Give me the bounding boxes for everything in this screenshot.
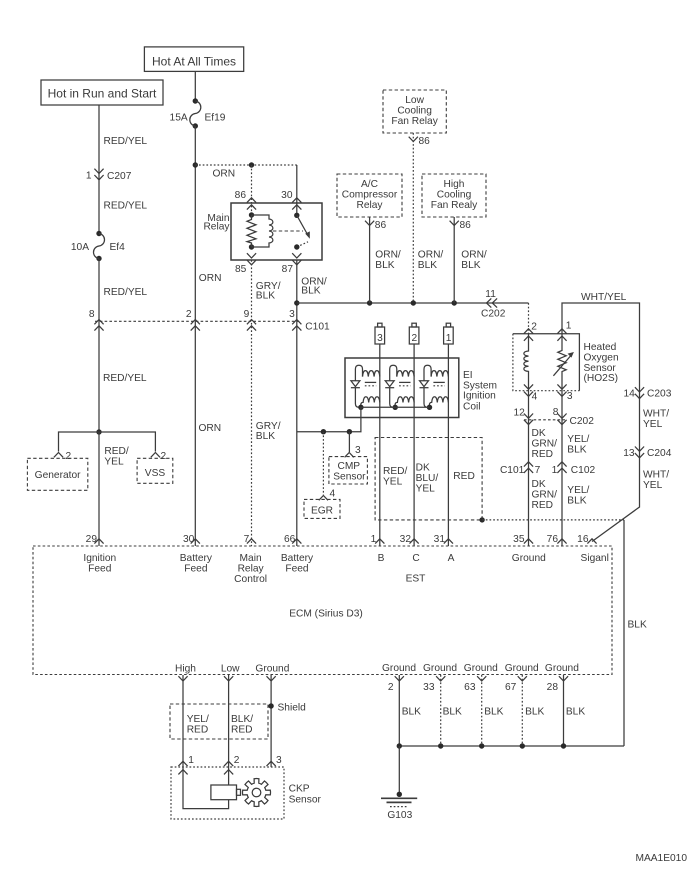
svg-text:2: 2 — [411, 333, 417, 344]
relay coil winding — [252, 215, 273, 247]
wire branch to Generator and VSS — [59, 432, 156, 452]
wire dotted ORN/BLK from low fan relay to bus — [412, 133, 414, 303]
ignition coil unit 3 secondary winding — [424, 388, 430, 408]
svg-text:DK: DK — [416, 463, 430, 474]
ignition coil unit 3 common node — [427, 405, 432, 410]
svg-text:BLK: BLK — [567, 445, 586, 456]
svg-text:YEL: YEL — [643, 480, 663, 491]
wire Low to CKP pin 2 — [228, 675, 230, 785]
wire ground pin 2 BLK — [398, 675, 400, 746]
wire shield Ground to CKP case — [270, 675, 272, 767]
svg-text:BLK/: BLK/ — [231, 714, 253, 725]
wire label RED/ YEL — [104, 446, 129, 468]
ignition coil unit 2 diode — [385, 381, 394, 388]
EGR — [304, 499, 340, 518]
svg-text:Ground: Ground — [464, 663, 498, 674]
svg-text:RED: RED — [532, 449, 554, 460]
svg-text:B: B — [378, 553, 385, 564]
wire ground bus — [399, 745, 624, 747]
ignition coil unit 2 secondary winding — [390, 388, 396, 408]
svg-text:YEL: YEL — [104, 456, 124, 467]
svg-text:BLU/: BLU/ — [416, 473, 439, 484]
svg-text:Ground: Ground — [423, 663, 457, 674]
wire ORN/BLK from high fan relay to bus — [453, 217, 455, 303]
Main Relay box — [231, 203, 322, 260]
svg-text:28: 28 — [547, 682, 559, 693]
wire ground pin 33 BLK dotted — [440, 675, 442, 746]
svg-text:2: 2 — [531, 321, 537, 332]
connector C202 pin 11 — [481, 289, 506, 320]
node: branch to relay pin 86 — [249, 162, 254, 167]
svg-text:11: 11 — [485, 289, 496, 300]
Generator — [27, 458, 87, 490]
svg-text:YEL: YEL — [416, 484, 436, 495]
svg-text:Ignition: Ignition — [463, 391, 496, 402]
svg-text:C203: C203 — [647, 389, 672, 400]
wire label DK GRN/ RED — [532, 428, 558, 460]
ignition coil unit 1 primary hook — [355, 365, 362, 381]
wire bus to relays and HO2S — [297, 302, 529, 304]
wire dotted to relay pin 86 — [251, 165, 253, 215]
svg-text:BLK: BLK — [443, 707, 462, 718]
ignition coil unit 1 common node — [358, 405, 363, 410]
VSS — [137, 458, 173, 483]
wire label YEL/ BLK — [567, 485, 589, 507]
svg-text:2: 2 — [186, 309, 192, 320]
wire WHT/YEL from HO2S pin 1 to ECM pin 16 — [562, 303, 640, 542]
ignition coil unit 2 common node — [393, 405, 398, 410]
ECM pin 35 — [513, 534, 533, 545]
svg-text:63: 63 — [464, 682, 476, 693]
wire coil B to ECM pin 1 — [379, 344, 381, 546]
svg-text:C202: C202 — [570, 416, 595, 427]
wire RED/YEL from Hot in Run and Start down to fuse Ef4 — [98, 105, 100, 234]
wire coil common to battery feed — [297, 407, 430, 431]
ECM pin 63 — [464, 676, 486, 693]
wire ORN/BLK from relay 87 to ECM pin 66 — [296, 260, 298, 546]
wire ground pin 63 BLK dotted — [481, 675, 483, 746]
wire label ORN/ BLK — [461, 250, 487, 272]
svg-text:16: 16 — [577, 534, 589, 545]
connector C203 pin 14 — [623, 387, 671, 399]
wire ORN/BLK from A/C relay to bus — [369, 217, 371, 303]
relay pin 85 arrows — [247, 253, 256, 265]
svg-text:Sensor: Sensor — [289, 794, 322, 805]
svg-text:7: 7 — [244, 534, 250, 545]
svg-text:Relay: Relay — [238, 564, 265, 575]
node BLK junction — [479, 517, 484, 522]
wire label ORN/ BLK — [375, 250, 401, 272]
svg-text:30: 30 — [183, 534, 195, 545]
EI System Ignition Coil label — [463, 370, 497, 413]
connector C101 pin 2 — [186, 309, 200, 331]
HO2S pin 1 arrows — [557, 321, 571, 341]
fuse Ef19 15A — [170, 98, 226, 128]
svg-text:C101: C101 — [305, 322, 330, 333]
node: ORN branch junction — [193, 162, 198, 167]
wire label YEL/ BLK — [567, 434, 589, 456]
svg-text:BLK: BLK — [256, 291, 275, 302]
svg-text:86: 86 — [235, 190, 247, 201]
svg-text:3: 3 — [377, 333, 383, 344]
svg-text:Cooling: Cooling — [397, 106, 432, 117]
wire RED/YEL to ECM pin 29 — [98, 432, 100, 546]
svg-text:2: 2 — [66, 451, 72, 462]
svg-text:RED: RED — [532, 500, 554, 511]
ECM pin 30 — [183, 534, 200, 545]
svg-text:RED: RED — [231, 724, 253, 735]
wire BLK down to ground bus — [623, 520, 625, 746]
svg-text:86: 86 — [419, 136, 431, 147]
svg-text:1: 1 — [188, 755, 194, 766]
svg-text:C102: C102 — [571, 465, 596, 476]
svg-text:3: 3 — [567, 391, 573, 402]
CKP pin 2 — [224, 755, 240, 775]
VSS pin 2 — [151, 451, 167, 462]
ECM pin 76 — [547, 534, 567, 545]
svg-text:2: 2 — [388, 682, 394, 693]
EI System Ignition Coil box — [345, 358, 459, 418]
CKP pin 1 — [178, 755, 194, 775]
connector C101 pin 8 — [89, 309, 104, 331]
svg-text:1: 1 — [446, 333, 452, 344]
ignition coil unit 2 capacitor — [399, 382, 410, 385]
svg-text:Coil: Coil — [463, 402, 481, 413]
svg-text:12: 12 — [513, 408, 525, 419]
power source box Hot At All Times — [144, 47, 243, 72]
svg-text:4: 4 — [330, 489, 336, 500]
svg-text:76: 76 — [547, 534, 559, 545]
svg-text:YEL/: YEL/ — [567, 434, 589, 445]
svg-text:ORN/: ORN/ — [375, 250, 401, 261]
wire GRY/BLK dotted from relay 85 to ECM pin 7 — [251, 260, 253, 546]
svg-text:Fan Relay: Fan Relay — [391, 116, 438, 127]
spark plug connector 2 — [409, 323, 419, 344]
high fan relay pin 86 — [450, 220, 472, 231]
svg-text:Relay: Relay — [203, 222, 230, 233]
svg-text:RED/: RED/ — [383, 466, 408, 477]
svg-text:Generator: Generator — [35, 470, 81, 481]
svg-text:YEL: YEL — [643, 419, 663, 430]
wire coil A to ECM pin 31 — [447, 344, 449, 546]
HO2S sensing element (variable resistor) — [553, 334, 574, 391]
svg-text:YEL/: YEL/ — [567, 485, 589, 496]
wire dotted drop to HO2S pin 2 — [528, 303, 530, 334]
svg-text:Ground: Ground — [255, 664, 289, 675]
svg-text:Control: Control — [234, 574, 267, 585]
svg-text:Ground: Ground — [505, 663, 539, 674]
svg-text:RED/: RED/ — [104, 446, 129, 457]
svg-text:1: 1 — [86, 171, 92, 182]
svg-text:Cooling: Cooling — [437, 190, 472, 201]
connector C101 pin 9 — [244, 309, 256, 331]
wire YEL/BLK from HO2S pin 3 to ECM pin 76 — [561, 391, 563, 546]
node ground junction — [520, 743, 525, 748]
wire label GRY/ BLK — [256, 421, 281, 442]
svg-text:ECM (Sirius D3): ECM (Sirius D3) — [289, 609, 363, 620]
wire ground pin 28 BLK — [563, 675, 565, 746]
svg-text:WHT/YEL: WHT/YEL — [581, 292, 627, 303]
svg-text:31: 31 — [434, 534, 446, 545]
connector C101 pin 7 — [500, 462, 541, 476]
svg-text:Ignition: Ignition — [83, 553, 116, 564]
node ground junction — [561, 743, 566, 748]
wire label RED/ YEL — [383, 466, 408, 488]
svg-text:85: 85 — [235, 264, 247, 275]
node junction A/C relay — [367, 300, 372, 305]
svg-text:C207: C207 — [107, 171, 132, 182]
wire to CMP Sensor pin 3 — [348, 432, 350, 452]
wire label WHT/ YEL — [643, 470, 669, 492]
node ground junction — [397, 743, 402, 748]
wire ORN from fuse to ECM pin 30 — [194, 126, 196, 546]
svg-text:8: 8 — [89, 309, 95, 320]
svg-text:WHT/: WHT/ — [643, 409, 669, 420]
wire label ORN/ BLK — [418, 250, 444, 272]
ECM box — [33, 546, 612, 675]
svg-text:A: A — [448, 553, 455, 564]
svg-text:87: 87 — [282, 264, 294, 275]
Generator pin 2 — [54, 451, 72, 462]
svg-text:C: C — [412, 553, 419, 564]
svg-text:ORN/: ORN/ — [418, 250, 444, 261]
connector C202 pin 8 — [553, 407, 594, 427]
ECM pin High arrow — [178, 676, 187, 681]
svg-text:3: 3 — [276, 755, 282, 766]
wire dotted ORN branch to main relay — [195, 164, 296, 166]
spark plug connector 3 — [375, 323, 385, 344]
svg-text:ORN: ORN — [199, 423, 222, 434]
ECM pin Ground(shield) arrow — [267, 676, 276, 681]
spark plug connector 1 — [444, 323, 454, 344]
ECM terminal name Battery Feed — [180, 553, 213, 575]
svg-text:Shield: Shield — [278, 702, 307, 713]
svg-text:Sensor: Sensor — [584, 363, 617, 374]
svg-text:Hot in Run and Start: Hot in Run and Start — [48, 87, 157, 101]
svg-text:G103: G103 — [387, 810, 412, 821]
relay linkage dashed — [273, 230, 303, 232]
wire label BLK/ RED — [231, 714, 253, 736]
svg-text:9: 9 — [244, 309, 250, 320]
power source box Hot in Run and Start — [41, 80, 163, 105]
CKP pickup coil — [211, 785, 241, 800]
svg-text:BLK: BLK — [525, 707, 544, 718]
svg-text:1: 1 — [371, 534, 377, 545]
CKP Sensor label — [289, 783, 322, 805]
svg-text:2: 2 — [234, 755, 240, 766]
svg-text:15A: 15A — [170, 112, 188, 123]
svg-text:1: 1 — [566, 321, 572, 332]
HO2S pin 2 arrows — [524, 321, 537, 340]
svg-text:High: High — [175, 664, 196, 675]
ECM pin 66 — [284, 534, 301, 545]
svg-text:YEL/: YEL/ — [187, 714, 209, 725]
wire to ground G103 — [398, 746, 400, 795]
svg-text:BLK: BLK — [301, 285, 320, 296]
svg-text:Ground: Ground — [512, 553, 546, 564]
CMP Sensor — [329, 457, 368, 484]
HO2S heater coil — [524, 334, 529, 391]
svg-text:Sensor: Sensor — [333, 471, 366, 482]
svg-text:14: 14 — [623, 389, 635, 400]
HO2S name label — [584, 342, 619, 384]
ignition coil unit 2 primary hook — [390, 365, 397, 381]
svg-text:CKP: CKP — [289, 783, 310, 794]
svg-text:Hot At All Times: Hot At All Times — [152, 55, 236, 69]
svg-text:BLK: BLK — [256, 431, 275, 442]
node EGR branch — [321, 429, 326, 434]
svg-text:CMP: CMP — [337, 461, 360, 472]
svg-text:Ground: Ground — [545, 663, 579, 674]
svg-text:BLK: BLK — [628, 620, 647, 631]
svg-text:1: 1 — [552, 465, 558, 476]
svg-text:Main: Main — [240, 553, 262, 564]
svg-text:Oxygen: Oxygen — [584, 352, 619, 363]
wire label DK GRN/ RED — [532, 479, 558, 511]
HO2S pin 3 arrows — [557, 384, 573, 401]
svg-text:RED/YEL: RED/YEL — [104, 287, 148, 298]
ECM pin 28 — [547, 676, 568, 693]
node junction low fan relay — [411, 300, 416, 305]
ECM terminal name Battery Feed — [281, 553, 314, 575]
Main Relay label — [203, 213, 230, 233]
ignition coil unit 3 primary hook — [424, 365, 431, 381]
relay pin 87 arrows — [292, 253, 301, 265]
HO2S pin 4 arrows — [524, 384, 538, 402]
svg-text:8: 8 — [553, 407, 559, 418]
svg-text:Battery: Battery — [281, 553, 314, 564]
connector C101 harness box — [375, 438, 482, 520]
svg-text:BLK: BLK — [567, 496, 586, 507]
svg-text:RED: RED — [187, 724, 209, 735]
wire label DK BLU/ YEL — [416, 463, 439, 495]
ECM pin 1 label — [371, 534, 385, 545]
wire label ORN/ BLK — [301, 276, 327, 296]
svg-text:ORN: ORN — [199, 273, 222, 284]
svg-text:WHT/: WHT/ — [643, 470, 669, 481]
svg-text:RED/YEL: RED/YEL — [104, 136, 148, 147]
CKP pin 3 — [267, 755, 283, 766]
svg-text:13: 13 — [623, 448, 635, 459]
svg-text:10A: 10A — [71, 242, 89, 253]
relay pin 30 arrows — [292, 198, 301, 210]
node ground junction — [479, 743, 484, 748]
svg-text:BLK: BLK — [418, 260, 437, 271]
svg-text:30: 30 — [281, 190, 293, 201]
CKP Sensor box — [171, 767, 284, 819]
A/C Compressor Relay — [337, 174, 402, 217]
svg-text:3: 3 — [289, 309, 295, 320]
svg-text:RED: RED — [453, 471, 475, 482]
ECM pin 7 — [244, 534, 256, 545]
connector C202 pin 12 — [513, 408, 533, 425]
connector C101 pin 3 — [289, 309, 330, 333]
ECM pin 2 — [388, 676, 404, 693]
ECM terminal name Ignition Feed — [83, 553, 116, 575]
svg-text:86: 86 — [460, 220, 472, 231]
ECM pin 67 — [505, 676, 527, 693]
svg-text:29: 29 — [86, 534, 98, 545]
svg-text:BLK: BLK — [566, 707, 585, 718]
svg-text:VSS: VSS — [145, 468, 166, 479]
ignition coil unit 3 diode — [420, 381, 429, 388]
ground symbol G103 — [381, 792, 417, 807]
svg-text:(HO2S): (HO2S) — [584, 373, 619, 384]
relay switch — [294, 213, 310, 250]
low fan relay pin 86 — [409, 136, 430, 147]
A/C relay pin 86 — [365, 220, 386, 231]
ignition coil unit 1 primary winding — [363, 371, 380, 377]
svg-text:Relay: Relay — [356, 200, 383, 211]
svg-text:67: 67 — [505, 682, 517, 693]
ECM pin Low arrow — [224, 676, 233, 681]
node: junction to Generator/VSS — [96, 429, 101, 434]
svg-text:Fan Realy: Fan Realy — [431, 200, 478, 211]
svg-text:ORN/: ORN/ — [461, 250, 487, 261]
EGR pin 4 — [319, 489, 336, 501]
ignition coil unit 2 primary winding — [397, 371, 414, 377]
node ground junction — [438, 743, 443, 748]
svg-text:BLK: BLK — [484, 707, 503, 718]
svg-text:BLK: BLK — [461, 260, 480, 271]
svg-text:C204: C204 — [647, 448, 672, 459]
svg-text:RED/YEL: RED/YEL — [103, 373, 147, 384]
connector C202 dashed line — [524, 419, 567, 421]
svg-text:Ef4: Ef4 — [110, 242, 126, 253]
ignition coil unit 1 secondary winding — [355, 388, 361, 408]
wire dotted to EGR pin 4 — [322, 432, 324, 495]
CKP reluctor gear — [242, 778, 270, 806]
ECM pin 31 label — [434, 534, 453, 545]
node shield tap — [268, 703, 273, 708]
relay coil resistor — [247, 212, 256, 249]
svg-text:MAA1E010: MAA1E010 — [635, 853, 687, 864]
ignition coil unit 3 primary winding — [431, 371, 448, 377]
wire DK GRN/RED from HO2S pin 4 to ECM pin 35 — [528, 391, 530, 546]
node: bus junction — [294, 300, 299, 305]
wire ORN from Hot At All Times to fuse Ef19 — [194, 71, 196, 101]
wire ground pin 67 BLK dotted — [521, 675, 523, 746]
svg-text:Feed: Feed — [184, 564, 208, 575]
svg-text:Low: Low — [405, 95, 424, 106]
svg-text:Siganl: Siganl — [581, 553, 609, 564]
svg-text:Feed: Feed — [88, 564, 112, 575]
svg-text:A/C: A/C — [361, 179, 378, 190]
connector C207 pin 1 — [86, 169, 132, 183]
svg-text:BLK: BLK — [375, 260, 394, 271]
Low Cooling Fan Relay — [383, 90, 446, 133]
CKP wire loop — [183, 767, 229, 809]
svg-text:EGR: EGR — [311, 506, 333, 517]
ECM terminal name Main Relay Control — [234, 553, 267, 585]
Heated Oxygen Sensor box — [513, 334, 580, 391]
svg-text:Low: Low — [221, 664, 240, 675]
svg-text:Heated: Heated — [584, 342, 617, 353]
wire label YEL/ RED — [187, 714, 209, 736]
svg-text:RED/YEL: RED/YEL — [104, 201, 148, 212]
wire RED/YEL below fuse Ef4 to junction — [98, 259, 100, 433]
fuse Ef4 10A — [71, 231, 125, 261]
node CMP branch — [347, 429, 352, 434]
wire label WHT/ YEL — [643, 409, 669, 431]
ignition coil unit 1 diode — [351, 381, 360, 388]
svg-text:High: High — [444, 179, 465, 190]
connector C204 pin 13 — [623, 447, 671, 459]
svg-text:Ef19: Ef19 — [205, 112, 226, 123]
svg-text:Feed: Feed — [285, 564, 309, 575]
wire to relay pin 30 — [296, 165, 298, 215]
svg-text:Battery: Battery — [180, 553, 213, 564]
